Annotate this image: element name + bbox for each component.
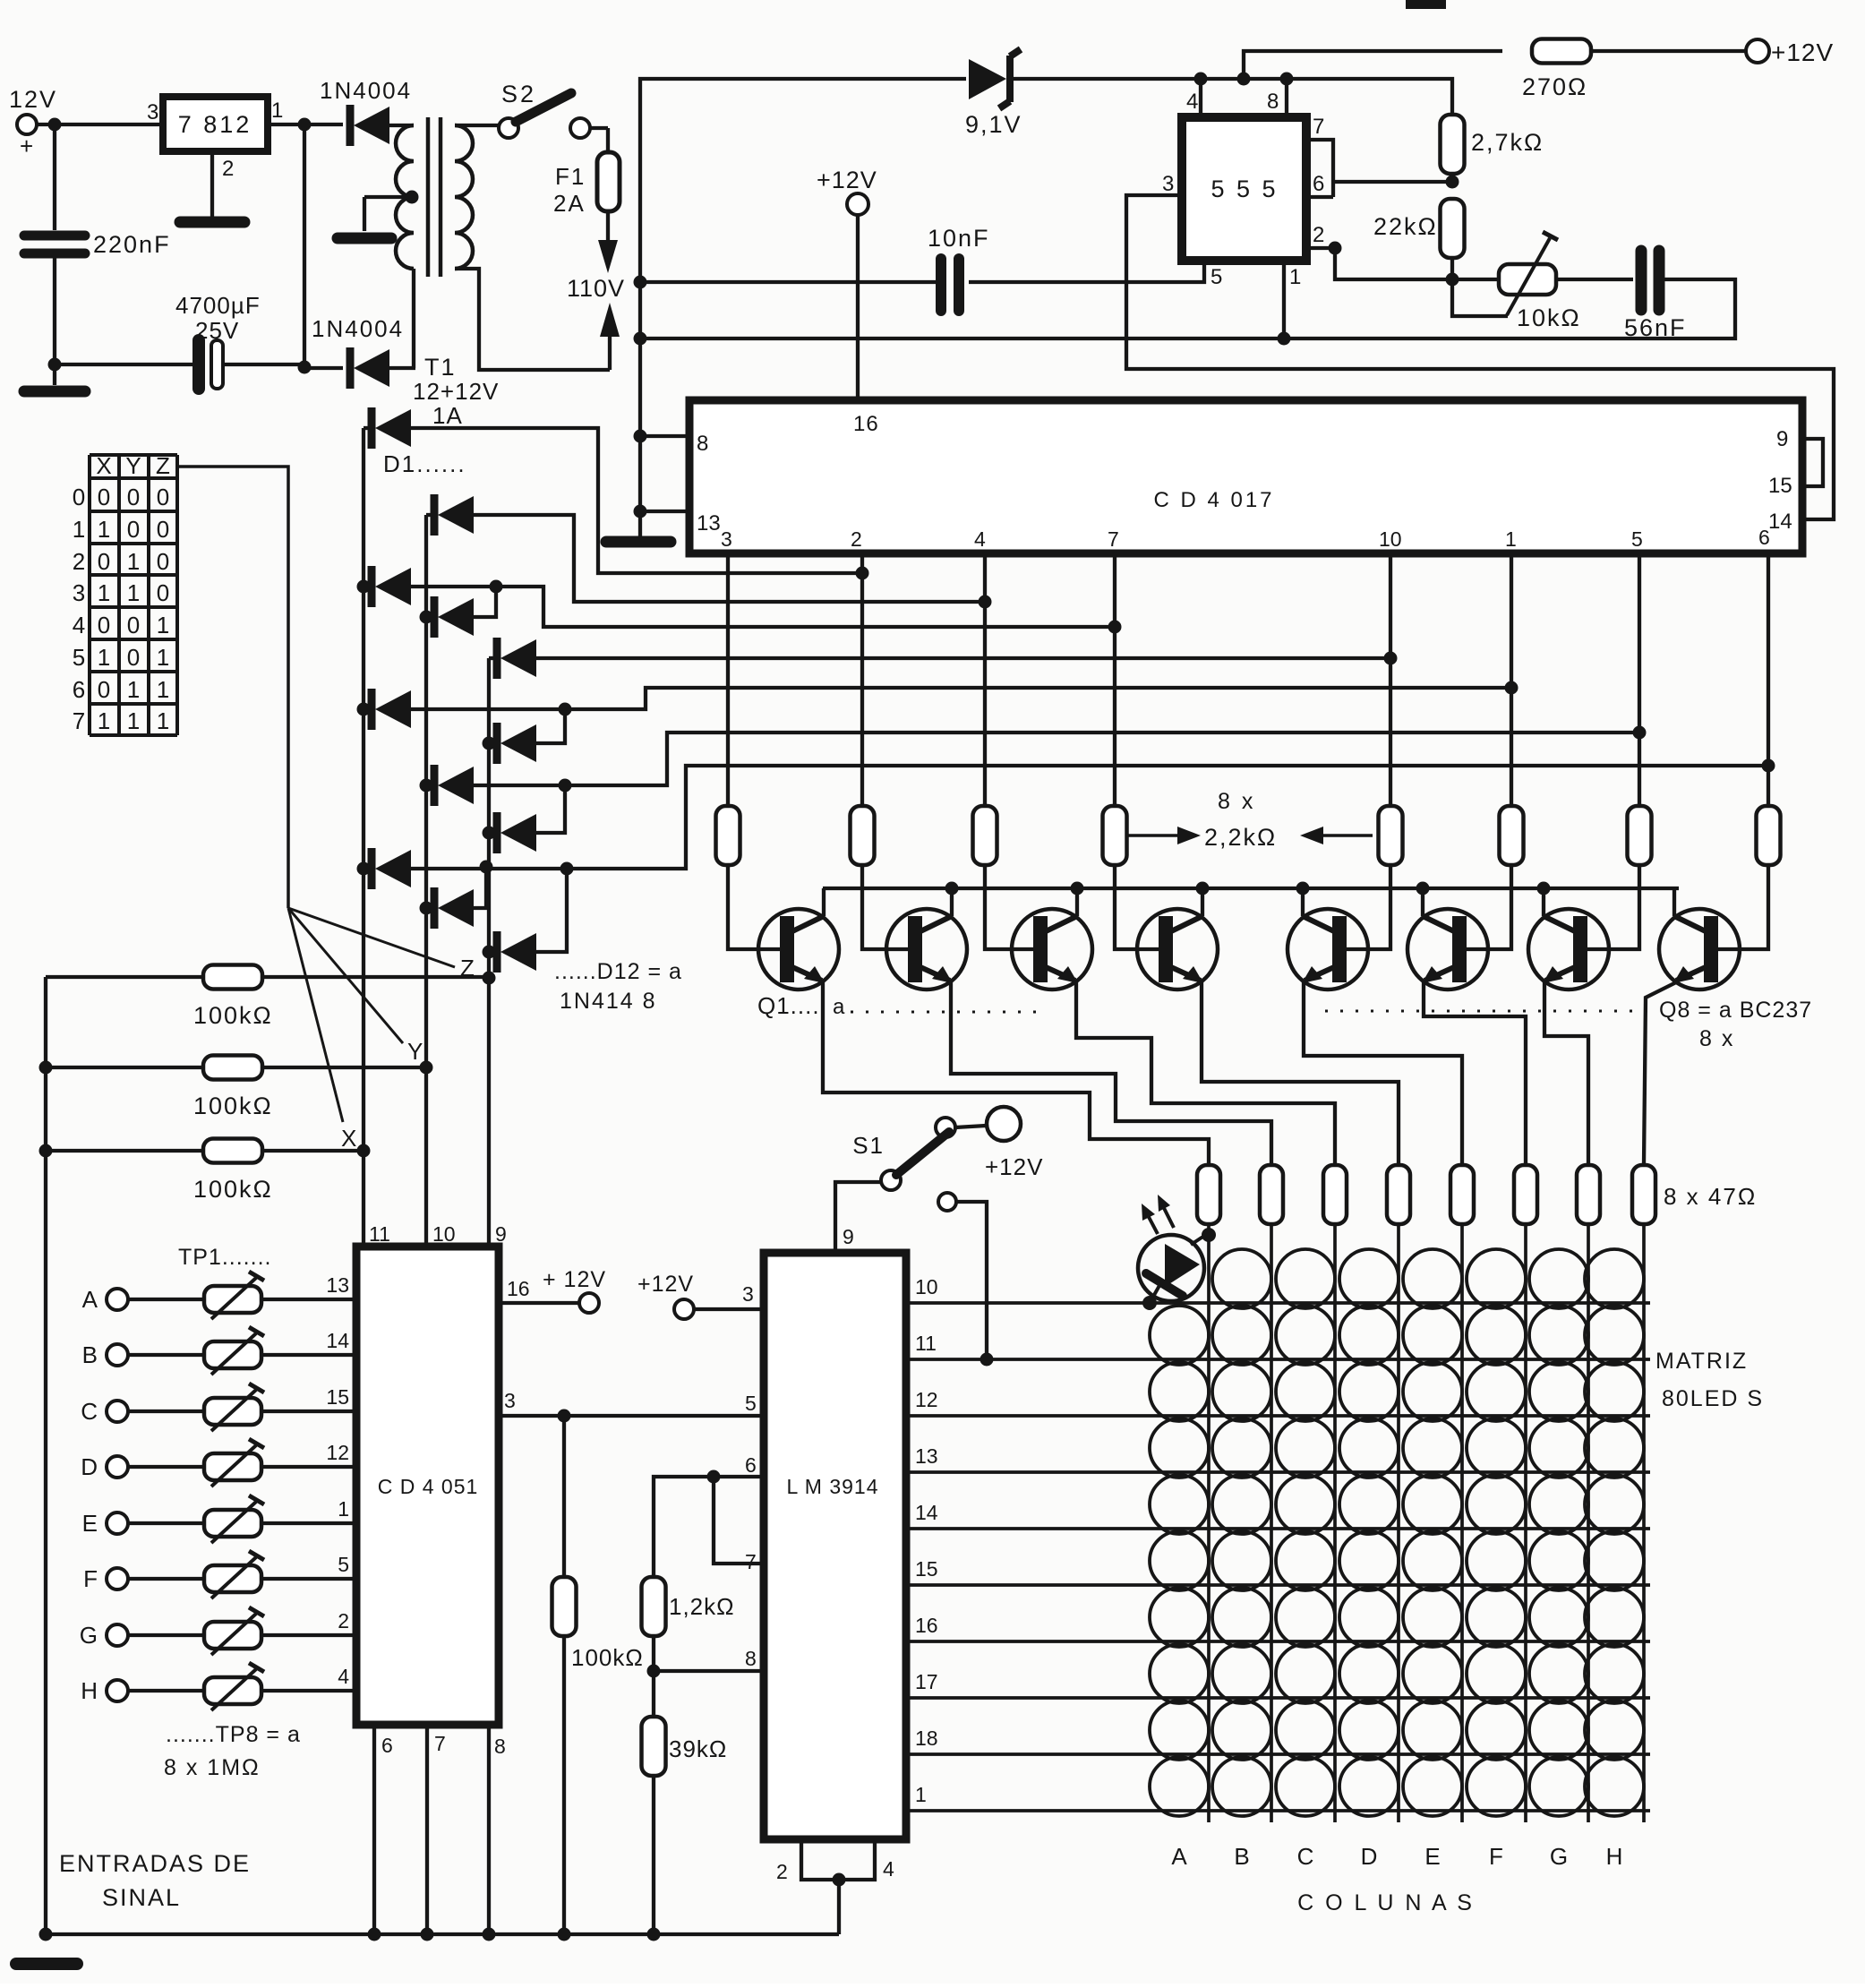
- svg-text:7: 7: [73, 707, 85, 734]
- wire junction to 100k: [562, 1416, 566, 1578]
- node LED cathode to column A: [1202, 1228, 1216, 1242]
- wire D8 to pin5: [474, 733, 1639, 785]
- svg-text:C D 4 017: C D 4 017: [1153, 488, 1274, 512]
- wire 7812 pin 2 to ground: [210, 151, 214, 218]
- resistor 47&#937; column G: [1577, 1165, 1600, 1224]
- svg-text:100kΩ: 100kΩ: [193, 1176, 273, 1203]
- node pin8/divider: [647, 1665, 661, 1678]
- svg-text:TP1.......: TP1.......: [178, 1245, 271, 1270]
- resistor 2,2k&#937; base R1: [716, 806, 740, 865]
- wire collector Q5: [1301, 888, 1305, 916]
- node rectifier top junction: [298, 118, 312, 132]
- svg-text:14: 14: [326, 1329, 349, 1352]
- LED matrix circles 80 LEDs: [1150, 1249, 1644, 1816]
- svg-text:5: 5: [73, 644, 85, 671]
- node count7/pin6: [1762, 759, 1775, 773]
- wire ground rail to riser: [640, 337, 1284, 340]
- svg-text:100kΩ: 100kΩ: [193, 1002, 273, 1029]
- node pin1/ground rail: [1278, 332, 1291, 346]
- wire D2 to CD4017 pin4: [474, 515, 985, 602]
- svg-text:......D12 = a: ......D12 = a: [554, 959, 682, 984]
- svg-text:7: 7: [434, 1732, 446, 1755]
- resistor 2,2k&#937; base R5: [1379, 806, 1403, 865]
- wire D7 anode riser: [536, 709, 565, 743]
- resistor 270ohm: [1532, 39, 1591, 64]
- svg-text:100kΩ: 100kΩ: [193, 1093, 273, 1119]
- zener diode 9,1V: [969, 59, 1006, 99]
- svg-text:+12V: +12V: [985, 1153, 1043, 1180]
- node X bus bottom: [357, 1144, 371, 1158]
- wire CD4017 output Q2 vertical: [983, 553, 987, 806]
- resistor 47&#937; column A: [1197, 1165, 1220, 1224]
- wire aux terminal to row 11: [956, 1202, 987, 1359]
- resistor 100k&#937; #3: [46, 1149, 204, 1153]
- svg-text:5: 5: [1211, 265, 1222, 289]
- wire CD4017 pins 9-15 bracket: [1802, 439, 1823, 486]
- LED D-first (top-left) with emission arrows: [1138, 1235, 1204, 1301]
- svg-text:1: 1: [127, 579, 140, 606]
- resistor 2,2k&#937; base R6: [1500, 806, 1524, 865]
- trimpot TP3 1M: [128, 1410, 204, 1413]
- wire transformer center tap: [406, 191, 419, 204]
- svg-text:7 812: 7 812: [178, 111, 252, 138]
- node collector rail Q5: [1296, 882, 1310, 895]
- transistor Q1 BC237: [758, 909, 839, 990]
- svg-text:13: 13: [697, 511, 721, 536]
- svg-text:4700µF: 4700µF: [175, 292, 261, 319]
- terminal 12V input: [17, 115, 37, 134]
- wire row 8 (LM3914 pin): [906, 1696, 1650, 1700]
- svg-text:1: 1: [157, 707, 169, 734]
- wire Y bus: [424, 515, 428, 1067]
- trimpot TP6 1M: [128, 1577, 204, 1581]
- wire emitter Q3 to column C: [1076, 981, 1335, 1164]
- node Y bus bottom: [420, 1061, 433, 1075]
- svg-text:11: 11: [369, 1222, 390, 1246]
- svg-text:80LED S: 80LED S: [1662, 1386, 1764, 1411]
- svg-text:2: 2: [1313, 223, 1324, 247]
- resistor 47&#937; column D: [1387, 1165, 1410, 1224]
- wire row 5 (LM3914 pin): [906, 1527, 1650, 1530]
- wire collector Q8: [1673, 888, 1676, 916]
- svg-text:1: 1: [157, 612, 169, 638]
- wire node to LM3914 pin8: [654, 1669, 764, 1673]
- wire 555 pin8 stub: [1285, 79, 1288, 117]
- svg-text:10: 10: [432, 1222, 456, 1246]
- truth table XYZ: [90, 455, 177, 735]
- svg-text:10nF: 10nF: [928, 225, 990, 252]
- resistor 2,2k&#937; base R3: [973, 806, 997, 865]
- wire CD4051 pin6 down: [372, 1725, 376, 1934]
- wire 100k to ground rail: [562, 1635, 566, 1934]
- svg-text:X: X: [96, 452, 111, 479]
- wire emitter Q5 to column E: [1304, 981, 1462, 1164]
- svg-text:6: 6: [745, 1453, 757, 1477]
- svg-text:12: 12: [326, 1441, 349, 1464]
- wire bottom rail left (to 4700uF): [55, 363, 193, 366]
- diode 1N4004 (bottom): [304, 366, 343, 370]
- terminal +12V top right: [1746, 39, 1769, 63]
- wire LM3914 pin9 to S1: [835, 1182, 881, 1253]
- svg-text:2A: 2A: [553, 190, 586, 217]
- wire LED cathode lead: [1191, 1235, 1209, 1245]
- svg-text:1: 1: [98, 644, 110, 671]
- svg-text:7: 7: [1313, 115, 1324, 139]
- resistor 47&#937; column B: [1260, 1165, 1283, 1224]
- svg-text:C: C: [81, 1398, 98, 1425]
- node count3 join: [490, 580, 503, 594]
- wire pin8 to 2,7k: [1287, 79, 1452, 116]
- svg-text:11: 11: [915, 1332, 937, 1355]
- svg-text:1: 1: [1289, 265, 1301, 289]
- transistor Q8 BC237: [1659, 909, 1740, 990]
- svg-text:100kΩ: 100kΩ: [571, 1644, 644, 1671]
- node count7 join1: [480, 861, 493, 874]
- switch S2: [499, 118, 518, 138]
- transformer T1 12+12V 1A: [396, 117, 473, 277]
- node pins2/4: [833, 1873, 846, 1887]
- wire Z bus: [487, 658, 491, 978]
- svg-text:9,1V: 9,1V: [965, 111, 1022, 138]
- svg-text:F: F: [1489, 1843, 1503, 1870]
- svg-text:14: 14: [1768, 510, 1792, 534]
- wire S2 to fuse F1: [590, 126, 608, 130]
- svg-text:H: H: [1606, 1843, 1623, 1870]
- terminal input C: [107, 1401, 128, 1422]
- wire base R to Q3: [985, 865, 1033, 949]
- svg-text:H: H: [81, 1677, 98, 1704]
- trimpot TP4 1M: [128, 1465, 204, 1469]
- wire LED column C: [1333, 1224, 1337, 1822]
- node rail CD4051 p8: [483, 1928, 496, 1941]
- node rail r3: [39, 1144, 53, 1158]
- diode D3 (X, count 3): [364, 585, 372, 588]
- wire 555 pin5 stub: [969, 261, 1204, 282]
- wire diode to secondary top: [389, 124, 414, 127]
- svg-text:25V: 25V: [195, 317, 239, 344]
- wire CD4017 output Q4 vertical: [1389, 553, 1392, 806]
- terminal +12V (CD4017 pin16): [847, 193, 868, 215]
- wire X bus: [362, 428, 365, 1151]
- resistor 100k&#937; #1: [46, 975, 204, 979]
- svg-text:10kΩ: 10kΩ: [1517, 304, 1581, 331]
- wire emitter Q8 to column H: [1644, 982, 1676, 1164]
- wire 270ohm to +12V terminal: [1591, 49, 1747, 53]
- node count4/pin10: [1384, 652, 1398, 665]
- switch S1: [881, 1170, 901, 1190]
- resistor 2,2k&#937; base R8: [1757, 806, 1781, 865]
- svg-text:1N4004: 1N4004: [312, 315, 404, 342]
- svg-text:+12V: +12V: [637, 1272, 694, 1297]
- node count2/pin4: [979, 596, 992, 609]
- svg-text:+12V: +12V: [1771, 39, 1834, 66]
- svg-text:1A: 1A: [432, 402, 463, 429]
- node D3 on X bus: [357, 580, 371, 594]
- wire base R to Q7: [1587, 865, 1639, 949]
- diode D5 (Z, count 4): [489, 656, 498, 660]
- node count5 join: [559, 703, 572, 716]
- svg-text:C O L U N A S: C O L U N A S: [1297, 1890, 1475, 1915]
- wire 39k to ground rail: [652, 1775, 655, 1934]
- wire D10 to pin6: [411, 766, 1768, 869]
- wire truth table to select fan: [177, 467, 288, 908]
- wire TP1 to CD4051 pin 13: [261, 1298, 356, 1301]
- diode D8 (Y, count 6): [426, 784, 435, 787]
- wire base R to Q6: [1467, 865, 1511, 949]
- ground main: [16, 1958, 77, 1970]
- wire CD4017 output Q5 vertical: [1510, 553, 1513, 806]
- node LED anode to row 1: [1142, 1296, 1157, 1310]
- trimpot 10k: [1499, 264, 1556, 295]
- wire CD4017 output Q6 vertical: [1638, 553, 1641, 806]
- wire TP6 to CD4051 pin 5: [261, 1577, 356, 1581]
- wire emitter Q6 to column F: [1424, 981, 1526, 1164]
- wire CD4017 output Q0 vertical: [726, 553, 730, 806]
- wire row 2 (LM3914 pin): [906, 1358, 1650, 1361]
- svg-text:3: 3: [504, 1389, 516, 1412]
- wire LED column F: [1524, 1224, 1527, 1822]
- svg-text:0: 0: [127, 644, 140, 671]
- wire to 270ohm and +12V: [1244, 51, 1502, 79]
- svg-text:S2: S2: [501, 81, 536, 107]
- svg-text:6: 6: [381, 1734, 393, 1757]
- wire row 6 (LM3914 pin): [906, 1583, 1650, 1587]
- svg-text:1: 1: [271, 99, 283, 123]
- wire collector Q2: [950, 888, 954, 916]
- wire 1,2k to pin8: [652, 1635, 655, 1671]
- svg-text:0: 0: [98, 612, 110, 638]
- wire CD4017 output Q3 vertical: [1113, 553, 1116, 806]
- IC LM3914: [764, 1253, 906, 1839]
- wire collector Q6: [1421, 888, 1424, 916]
- svg-text:1N414 8: 1N414 8: [560, 989, 657, 1014]
- svg-text:5: 5: [1631, 527, 1643, 551]
- wire diode anode to secondary bottom: [389, 366, 415, 370]
- svg-text:39kΩ: 39kΩ: [669, 1735, 727, 1762]
- terminal +12V (S1): [987, 1107, 1021, 1141]
- node rail 39k: [647, 1928, 661, 1941]
- diode D12 (Z, count 7): [489, 950, 498, 954]
- svg-text:1: 1: [98, 516, 110, 543]
- svg-text:3: 3: [1162, 172, 1174, 196]
- node D12 on Z bus: [483, 946, 496, 959]
- svg-text:3: 3: [742, 1282, 754, 1306]
- wire emitter Q2 to column B: [951, 981, 1271, 1164]
- svg-text:2,2kΩ: 2,2kΩ: [1204, 824, 1277, 851]
- svg-text:E: E: [1424, 1843, 1440, 1870]
- wire 555 pin2 net: [1306, 246, 1335, 250]
- wire CD4017 output Q1 vertical: [860, 553, 864, 806]
- diode D9 (Z, count 6): [489, 831, 498, 835]
- wire LED column D: [1397, 1224, 1400, 1822]
- node pin8 top: [1280, 73, 1294, 86]
- wire CD4051 pin7 down: [425, 1725, 429, 1934]
- svg-text:6: 6: [73, 676, 85, 703]
- svg-text:9: 9: [495, 1222, 507, 1246]
- resistor 100k (reference): [552, 1577, 577, 1636]
- terminal +12V (LM3914 pin3): [674, 1299, 694, 1319]
- diode D1 (X, count 1): [364, 426, 372, 430]
- wire base R to Q8: [1718, 865, 1768, 949]
- wire 10nF to riser: [640, 280, 941, 284]
- svg-text:8: 8: [745, 1647, 757, 1670]
- wire 555 pin3 to CD4017 pin 14: [1126, 195, 1834, 519]
- node collector rail Q6: [1416, 882, 1430, 895]
- wire CD4017 pin8 stub: [640, 434, 689, 438]
- ground center tap: [338, 233, 391, 244]
- svg-text:2: 2: [73, 548, 85, 575]
- wire 555 pin1 stub: [1282, 261, 1286, 338]
- trimpot TP2 1M: [128, 1353, 204, 1357]
- node count3/pin7: [1108, 621, 1122, 634]
- trimpot TP8 1M: [128, 1689, 204, 1692]
- svg-text:0: 0: [127, 612, 140, 638]
- svg-text:0: 0: [157, 516, 169, 543]
- svg-text:14: 14: [915, 1501, 938, 1524]
- node pin3/100k junction: [558, 1410, 571, 1423]
- regulator 7812: [163, 97, 268, 151]
- svg-text:8 x 47Ω: 8 x 47Ω: [1664, 1183, 1757, 1210]
- node 12V/220nF junction: [48, 118, 62, 132]
- svg-text:5 5 5: 5 5 5: [1211, 176, 1278, 202]
- node collector rail Q2: [945, 882, 959, 895]
- node riser 318: [634, 276, 647, 289]
- resistor 22k: [1441, 199, 1465, 258]
- node pin6/7 join: [707, 1470, 721, 1484]
- node 270ohm riser: [1237, 73, 1251, 86]
- emission arrows: [1142, 1204, 1155, 1221]
- svg-text:1: 1: [157, 676, 169, 703]
- svg-text:G: G: [1550, 1843, 1568, 1870]
- node D10 on X bus: [357, 862, 371, 876]
- svg-text:3: 3: [147, 100, 158, 124]
- svg-text:1: 1: [127, 676, 140, 703]
- svg-text:16: 16: [915, 1614, 938, 1637]
- node rail CD4051 p6: [368, 1928, 381, 1941]
- svg-text:17: 17: [915, 1670, 938, 1693]
- wire TP5 to CD4051 pin 1: [261, 1521, 356, 1525]
- diode 1N4004 (top): [350, 105, 389, 146]
- transistor Q4 BC237: [1137, 909, 1218, 990]
- svg-text:0: 0: [157, 579, 169, 606]
- svg-text:0: 0: [98, 548, 110, 575]
- terminal input D: [107, 1456, 128, 1478]
- transistor Q2 BC237: [886, 909, 967, 990]
- node aux/pin11: [980, 1353, 994, 1367]
- wire Z bus to CD4051 pin9: [487, 978, 491, 1247]
- svg-text:220nF: 220nF: [93, 231, 171, 258]
- svg-text:12+12V: 12+12V: [413, 378, 499, 405]
- svg-text:5: 5: [745, 1392, 757, 1415]
- svg-text:Y: Y: [125, 452, 141, 479]
- wire pin6 to resistor junction: [1333, 180, 1452, 184]
- svg-text:Y: Y: [407, 1038, 423, 1065]
- trimpot TP7 1M: [128, 1633, 204, 1637]
- node rail CD4051 p7: [421, 1928, 434, 1941]
- resistor 2,2k&#937; base R4: [1103, 806, 1127, 865]
- diode D2 (Y, count 2): [426, 513, 435, 517]
- node count1/pin2: [856, 567, 869, 580]
- node D6 on X bus: [357, 703, 371, 716]
- wire emitter Q7 to column G: [1544, 981, 1588, 1164]
- capacitor 56nF: [1636, 251, 1647, 310]
- svg-text:0: 0: [157, 548, 169, 575]
- wire base R to Q4: [1115, 865, 1159, 949]
- diode D10 (X, count 7): [364, 867, 372, 870]
- wire collector Q4: [1201, 888, 1204, 916]
- ground under 7812: [180, 217, 244, 228]
- svg-text:9: 9: [843, 1225, 854, 1248]
- wire S1 to +12V: [955, 1126, 986, 1127]
- wire trimpot wiper return: [1452, 279, 1508, 316]
- resistor 2,7k: [1441, 115, 1465, 174]
- svg-text:16: 16: [507, 1277, 530, 1300]
- svg-text:10: 10: [1379, 527, 1402, 551]
- wire LED column B: [1270, 1224, 1273, 1822]
- svg-text:8: 8: [1267, 90, 1279, 114]
- capacitor 4700uF 25V (polarized): [192, 340, 205, 389]
- svg-text:15: 15: [915, 1557, 938, 1581]
- terminal input G: [107, 1624, 128, 1646]
- svg-text:F: F: [83, 1565, 98, 1592]
- svg-text:1: 1: [98, 579, 110, 606]
- diode D11 (Y, count 7): [426, 906, 435, 910]
- svg-text:15: 15: [326, 1385, 349, 1409]
- wire 56nF to pin1 rail: [1284, 279, 1735, 338]
- svg-text:8 x 1MΩ: 8 x 1MΩ: [164, 1755, 261, 1780]
- wire D3 to pin7: [411, 587, 1115, 627]
- wire junction vertical: [303, 124, 306, 367]
- svg-text:4: 4: [73, 612, 85, 638]
- wire CD4051 pin3 out: [499, 1414, 764, 1418]
- wire TP7 to CD4051 pin 2: [261, 1633, 356, 1637]
- transistor Q3 BC237: [1012, 909, 1092, 990]
- node D4 on Y bus: [420, 611, 433, 624]
- svg-text:MATRIZ: MATRIZ: [1655, 1349, 1748, 1374]
- svg-text:1: 1: [127, 548, 140, 575]
- wire Y bus to CD4051 pin10: [424, 1067, 428, 1247]
- wire ground-rail riser (x=715): [640, 79, 966, 542]
- svg-text:L M 3914: L M 3914: [786, 1475, 878, 1498]
- svg-text:Q1.....: Q1.....: [757, 992, 827, 1019]
- wire base R to Q2: [862, 865, 908, 949]
- terminal input B: [107, 1344, 128, 1366]
- wire collector Q7: [1542, 888, 1545, 916]
- capacitor 10nF: [936, 259, 946, 311]
- wire D1 to CD4017 pin2: [411, 428, 862, 573]
- wire row 9 (LM3914 pin): [906, 1752, 1650, 1756]
- node collector rail Q4: [1196, 882, 1210, 895]
- wire row 1 (LM3914 pin): [906, 1301, 1650, 1305]
- svg-text:8 x: 8 x: [1218, 789, 1255, 814]
- node collector rail Q3: [1071, 882, 1084, 895]
- node pin8: [634, 430, 647, 443]
- diode D6 (X, count 5): [364, 707, 372, 711]
- wire D4 anode riser: [474, 587, 496, 617]
- wire base R to Q1: [728, 865, 780, 949]
- wire 7812 pin1 to diode D-1N4004a: [268, 123, 343, 126]
- svg-text:T1: T1: [424, 354, 457, 381]
- resistor 39k: [652, 1671, 655, 1718]
- svg-text:0: 0: [98, 484, 110, 510]
- trimpot TP1 1M: [128, 1298, 204, 1301]
- wire primary bottom loop: [455, 269, 610, 370]
- IC CD4051: [356, 1247, 499, 1725]
- wire collector Q1: [822, 888, 826, 916]
- fuse F1 2A: [597, 152, 620, 211]
- svg-text:1: 1: [157, 644, 169, 671]
- transistor Q7 BC237: [1528, 909, 1609, 990]
